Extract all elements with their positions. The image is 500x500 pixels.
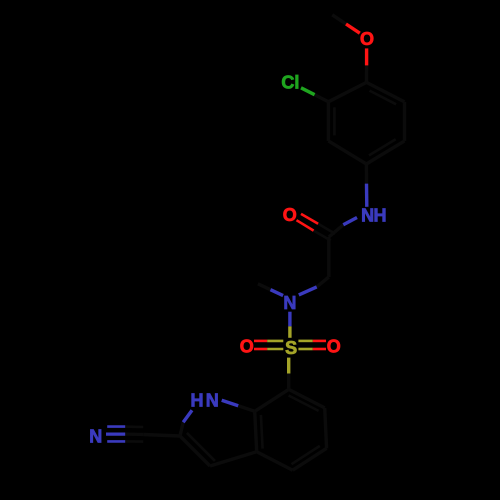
wire: Cl-C2 dark half (315, 95, 329, 102)
wire: N1-C2 indole blue half (183, 410, 192, 422)
svg-text:N: N (89, 427, 102, 447)
ring benzene 2: C3a-C4b (257, 452, 293, 471)
wire: N1-C7a indole blue half (222, 400, 239, 406)
ring pyrrole: C2=C3 inner line (187, 433, 215, 461)
wire: O-CH3 dark half (methoxy methyl) (332, 15, 346, 24)
nitrile triple bond blue halves (107, 425, 125, 428)
wire: CH2-N dark half (317, 277, 329, 287)
svg-text:N: N (361, 206, 374, 226)
svg-text:O: O (327, 336, 341, 356)
S=O left double bond: olive halves (267, 340, 283, 343)
S=O right double bond: red halves (313, 340, 326, 343)
wire: S-C7 dark half (287, 374, 290, 390)
wire: N-S blue half (288, 312, 291, 327)
ring benzene 1: C6-C1 (367, 82, 405, 102)
ring benzene 1: C5-C6 (403, 102, 406, 141)
wire: N(anilide)-C(amide) dark half (329, 225, 344, 237)
wire: O-C1 red half (365, 48, 368, 65)
svg-text:S: S (285, 338, 297, 358)
ring benzene 1: C3-C4 (328, 141, 366, 164)
ring benzene 1: C1-C2 (328, 82, 366, 101)
amide C=O red halves (double bond) (301, 214, 318, 224)
svg-text:N: N (283, 293, 296, 313)
svg-text:H: H (191, 390, 204, 410)
wire: N-S olive half (288, 326, 291, 337)
wire: N-CH2 blue half (299, 287, 317, 295)
wire: N1-C7a indole dark half (238, 406, 255, 412)
svg-text:O: O (240, 336, 254, 356)
wire: C(amide)-CH2 bond (327, 237, 330, 277)
wire: C2-C(nitrile) bond (143, 435, 180, 437)
wire: N(anilide)-C4 blue half (365, 184, 369, 207)
ring benzene 2: C5b-C6b (325, 408, 327, 448)
svg-text:H: H (374, 206, 387, 226)
wire: Cl-C2 green half (301, 88, 315, 95)
ring benzene 2: C7-C7a (255, 389, 289, 411)
ring benzene 1 inner double lines (333, 107, 336, 135)
ring benzene 2: C7a-C3a (fused bond) (255, 411, 257, 451)
ring pyrrole: C3-C3a (210, 452, 257, 466)
svg-text:O: O (283, 205, 297, 225)
wire: N1-C2 indole dark half (180, 422, 183, 436)
wire: S-C7 olive half (287, 358, 290, 374)
svg-text:O: O (360, 29, 374, 49)
amide C=O dark halves (318, 224, 335, 234)
nitrile triple bond dark halves (125, 425, 143, 428)
ring benzene 2: C6b-C7 (289, 389, 325, 408)
S=O left double bond: red halves (254, 340, 267, 343)
ring benzene 2 inner double lines (292, 446, 320, 464)
S=O right double bond: olive halves (298, 340, 312, 343)
wire: N(anilide)-C4 dark half (365, 164, 369, 184)
wire: O-C1 dark half (365, 65, 369, 82)
ring benzene 1: C2-C3 (327, 102, 330, 141)
ring benzene 1: C4-C5 (366, 141, 404, 164)
wire: N(anilide)-C(amide) blue half (343, 218, 357, 225)
svg-text:N: N (206, 390, 219, 410)
svg-text:Cl: Cl (281, 73, 299, 93)
wire: N-CH3 blue half (271, 290, 284, 296)
wire: O-CH3 red half (methoxy) (346, 24, 360, 33)
ring pyrrole: C2-C3 (180, 436, 210, 466)
ring benzene 2: C4b-C5b (293, 448, 327, 470)
wire: N-CH3 dark half (N-methyl) (258, 284, 271, 290)
